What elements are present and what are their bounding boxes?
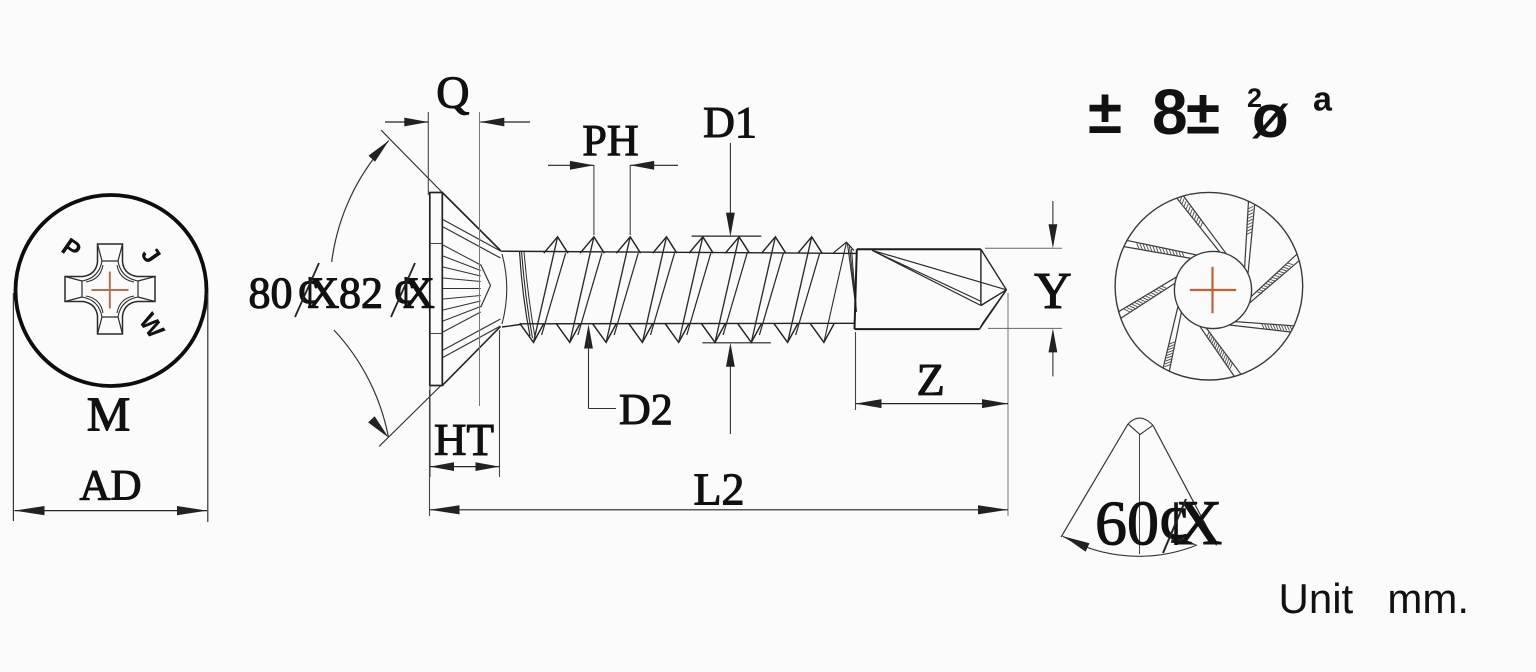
svg-text:mm.: mm. (1387, 575, 1469, 622)
svg-text:2: 2 (1247, 83, 1262, 113)
phillips recess inner taper walls (65, 244, 155, 334)
letter P marking (56, 233, 86, 266)
drill flute lines (872, 250, 1006, 305)
tolerance symbol a (1313, 81, 1333, 119)
drill tip edges (980, 249, 1007, 329)
L2 extension line left (429, 390, 431, 516)
D1 arrow top (692, 143, 762, 237)
HT extension lines (430, 330, 500, 477)
thread helix lines (534, 237, 847, 343)
Y extension lines (985, 248, 1062, 328)
svg-text:D1: D1 (703, 98, 757, 147)
countersink angle extension line bottom (379, 386, 441, 447)
letter J marking (135, 241, 166, 268)
countersink angle extension line top (381, 130, 442, 193)
PH extension lines (594, 165, 630, 235)
head cone bottom edge (442, 327, 500, 386)
point view inner circle (1174, 251, 1251, 328)
label M (87, 387, 131, 442)
label D2 (619, 385, 673, 434)
point angle cone sides (1061, 424, 1216, 545)
svg-text:PH: PH (582, 116, 638, 165)
svg-text:60: 60 (1095, 488, 1159, 559)
Y arrows (1049, 201, 1058, 376)
label HT (434, 415, 494, 465)
thread runout at head (520, 251, 536, 340)
orange centre cross (point view) (1190, 267, 1236, 313)
svg-text:HT: HT (434, 415, 494, 465)
cone-to-shank fillet (502, 254, 507, 324)
point view flute bands (1119, 196, 1300, 377)
tolerance symbol diameter (1247, 83, 1289, 150)
svg-text:Z: Z (917, 354, 945, 405)
Z dimension line (856, 399, 1009, 408)
HT dimension line (430, 462, 500, 471)
svg-text:X: X (403, 269, 435, 318)
svg-text:Unit: Unit (1279, 575, 1354, 622)
label 60X (1095, 487, 1222, 559)
point view outer circle (1115, 192, 1303, 380)
thread runout at point (848, 244, 857, 312)
PH dimension arrows (548, 161, 678, 170)
apex dome and chisel notch (1128, 418, 1153, 434)
svg-text:Q: Q (436, 67, 469, 118)
svg-text:82: 82 (339, 269, 383, 318)
unit note (1279, 575, 1470, 622)
svg-text:Y: Y (1034, 263, 1072, 320)
head flat face (side view) (430, 193, 443, 386)
countersink angle arc (332, 141, 389, 438)
angle label 80X82 (249, 263, 435, 318)
Z extension line left (855, 332, 857, 410)
phillips recess outline (65, 244, 155, 334)
svg-text:AD: AD (79, 462, 141, 509)
Q extension line left (427, 112, 429, 195)
recess bottom chevron (481, 265, 491, 308)
label L2 (693, 464, 744, 515)
svg-text:D2: D2 (619, 385, 673, 434)
thread teeth bottom (520, 323, 835, 342)
svg-text:L2: L2 (693, 464, 744, 515)
thread teeth top (544, 237, 854, 253)
AD dimension line with arrows (15, 506, 208, 515)
thread root line top (501, 251, 857, 253)
label Y (1034, 263, 1072, 320)
svg-text:X: X (1176, 487, 1222, 558)
label D1 (703, 98, 757, 147)
drill point body (855, 249, 981, 329)
Q dimension arrows (385, 118, 530, 127)
tolerance symbol plus-minus 1 (1088, 78, 1122, 147)
head cone surface lines (443, 220, 501, 358)
label Z (917, 354, 945, 405)
AD extension line left (12, 293, 14, 521)
svg-text:8: 8 (1152, 76, 1188, 148)
AD extension line right (207, 293, 209, 522)
tolerance symbol 8 plus-minus (1152, 76, 1220, 148)
svg-text:80: 80 (249, 269, 293, 318)
svg-text:M: M (87, 387, 131, 442)
thread root line bottom (502, 323, 855, 327)
label Q (436, 67, 469, 118)
head cone top edge (442, 193, 500, 251)
orange centre cross mark (head view) (92, 272, 129, 309)
phillips recess fan lines (side view) (443, 245, 481, 332)
D2 leader arrow (584, 325, 616, 409)
letter W marking (133, 308, 170, 344)
label AD (79, 462, 141, 509)
L2/Z extension line right (1007, 293, 1009, 516)
point angle centerline (1139, 435, 1141, 555)
60 degree angle arc (1063, 534, 1198, 556)
svg-text:±: ± (1186, 79, 1220, 148)
svg-text:X: X (308, 269, 340, 318)
D1 arrow bottom (702, 343, 771, 434)
Q extension line right (479, 112, 481, 406)
head top view outer circle (16, 195, 207, 386)
svg-text:±: ± (1088, 78, 1122, 147)
svg-text:a: a (1313, 81, 1333, 119)
label PH (582, 116, 638, 165)
L2 dimension line (430, 505, 1009, 514)
